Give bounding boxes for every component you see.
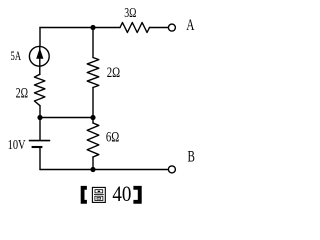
svg-text:A: A (186, 17, 195, 34)
svg-text:3Ω: 3Ω (124, 6, 136, 21)
svg-text:10V: 10V (8, 138, 26, 153)
svg-text:2Ω: 2Ω (107, 65, 121, 81)
svg-text:6Ω: 6Ω (106, 130, 120, 146)
svg-text:40: 40 (112, 181, 131, 206)
svg-text:5A: 5A (11, 48, 22, 63)
svg-text:B: B (188, 148, 195, 165)
svg-text:2Ω: 2Ω (16, 85, 29, 101)
